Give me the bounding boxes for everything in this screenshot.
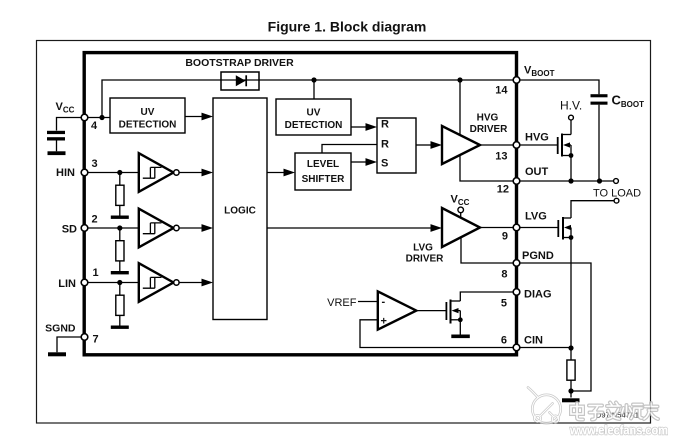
svg-text:13: 13 — [495, 151, 507, 163]
svg-text:14: 14 — [495, 85, 508, 97]
svg-text:DETECTION: DETECTION — [285, 120, 343, 131]
svg-text:CIN: CIN — [524, 335, 543, 347]
svg-text:9: 9 — [502, 231, 508, 243]
svg-text:H.V.: H.V. — [560, 99, 582, 113]
svg-text:Figure 1. Block diagram: Figure 1. Block diagram — [268, 19, 427, 35]
svg-text:UV: UV — [307, 108, 321, 119]
svg-text:SHIFTER: SHIFTER — [302, 174, 346, 185]
svg-text:+: + — [381, 316, 387, 328]
svg-text:HIN: HIN — [56, 167, 75, 179]
svg-text:DIAG: DIAG — [524, 289, 552, 301]
svg-text:6: 6 — [501, 335, 507, 347]
svg-text:LVG: LVG — [413, 243, 433, 254]
svg-text:-: - — [382, 296, 386, 308]
svg-text:TO LOAD: TO LOAD — [593, 188, 641, 200]
svg-text:BOOTSTRAP DRIVER: BOOTSTRAP DRIVER — [185, 57, 294, 69]
svg-text:8: 8 — [501, 269, 507, 281]
svg-text:OUT: OUT — [525, 166, 549, 178]
svg-text:1: 1 — [93, 267, 99, 279]
svg-text:VREF: VREF — [327, 297, 357, 309]
svg-text:7: 7 — [93, 334, 99, 346]
svg-text:R: R — [381, 139, 389, 151]
svg-text:R: R — [381, 119, 389, 131]
svg-text:PGND: PGND — [522, 250, 554, 262]
svg-text:DRIVER: DRIVER — [406, 254, 445, 265]
svg-text:2: 2 — [92, 214, 98, 226]
svg-text:www.elecfans.com: www.elecfans.com — [569, 424, 668, 438]
svg-text:LIN: LIN — [58, 278, 76, 290]
svg-text:LVG: LVG — [525, 211, 547, 223]
svg-text:12: 12 — [497, 184, 509, 196]
svg-text:HVG: HVG — [477, 113, 499, 124]
svg-text:3: 3 — [92, 158, 98, 170]
svg-text:5: 5 — [501, 298, 507, 310]
svg-text:SD: SD — [62, 224, 77, 236]
svg-text:UV: UV — [141, 107, 155, 118]
svg-text:S: S — [381, 158, 388, 170]
svg-text:LOGIC: LOGIC — [224, 206, 256, 217]
svg-text:4: 4 — [91, 120, 98, 132]
svg-text:DETECTION: DETECTION — [119, 120, 177, 131]
svg-text:HVG: HVG — [525, 132, 549, 144]
svg-text:DRIVER: DRIVER — [470, 124, 509, 135]
svg-text:LEVEL: LEVEL — [307, 159, 339, 170]
svg-text:SGND: SGND — [45, 323, 76, 335]
